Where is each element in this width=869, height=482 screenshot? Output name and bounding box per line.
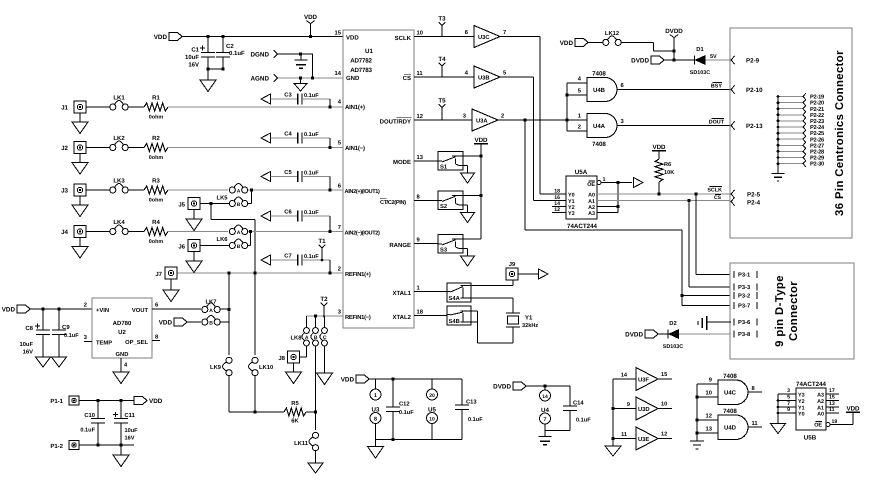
ground (S1) [461,173,475,183]
svg-text:T4: T4 [438,56,446,63]
svg-text:R1: R1 [152,95,160,102]
svg-text:P2-27: P2-27 [810,143,824,149]
svg-text:J6: J6 [178,244,185,251]
svg-text:T5: T5 [438,98,446,105]
power tag VDD (U2 input) [2,305,92,314]
pin P2-22 [777,112,824,119]
svg-text:B: B [237,244,241,250]
svg-text:GND: GND [116,351,129,358]
capacitor C3 0.1uF [271,92,331,108]
connector J9 [506,261,538,280]
svg-text:A: A [237,188,241,194]
svg-text:6K: 6K [291,418,299,425]
svg-text:A3: A3 [588,211,595,217]
resistor R1 0ohm [144,95,168,121]
wire LK7 join [220,308,231,322]
pin P2-23 [777,118,824,125]
wire CS pin 11 [414,76,474,78]
svg-text:9 pin D-Type: 9 pin D-Type [774,275,786,347]
svg-text:C4: C4 [284,131,292,138]
svg-text:10: 10 [429,416,435,422]
wire REFIN1(+) row [178,271,344,274]
wire U3C output to U5A Y0 [500,37,566,195]
resistor R2 0ohm [144,135,168,161]
ground (C8) [36,357,51,367]
svg-text:7408: 7408 [592,71,606,78]
wire MODE pin 13 [414,160,438,162]
wire LK9 to R5 [228,376,230,413]
jumper LK5 A [217,184,248,202]
svg-text:P2-10: P2-10 [746,87,763,94]
svg-text:U4C: U4C [724,390,737,397]
svg-text:Connector: Connector [788,281,800,341]
jumper LK8 (A/B/C) [291,316,328,346]
wire XTAL1 pin 1 [414,291,447,293]
svg-text:J9: J9 [509,261,516,268]
wire XTAL2 pin 18 [414,315,447,317]
capacitor C1 10uF 16V [185,37,215,70]
jumper LK7 B [202,316,221,327]
svg-text:7: 7 [503,30,506,36]
svg-text:P3-6: P3-6 [738,319,751,326]
pin P3-2 [734,292,757,300]
wire REFIN1(-) row [307,314,344,317]
svg-text:VDD: VDD [149,398,163,405]
svg-text:+VIN: +VIN [96,308,109,314]
svg-text:R3: R3 [152,178,160,185]
svg-text:16V: 16V [23,349,33,356]
power flag DVDD [665,28,683,62]
svg-text:16V: 16V [188,62,199,69]
test point T1 [318,238,326,261]
test point T2 [320,296,328,317]
ground (C1/C2) [200,80,216,92]
power tag VDD (LK12) [560,39,603,48]
node DGND [250,50,313,59]
svg-text:B: B [314,335,318,341]
svg-text:32kHz: 32kHz [522,322,538,329]
supply pin U4 pin7 [540,413,551,431]
wire [168,189,228,191]
connector J6 [178,240,230,262]
wire DOUT to P3-7 [682,305,731,307]
wire CS to P3-3 [689,201,731,288]
wire DOUT to P3-2 [682,295,731,297]
connector J5 [178,198,230,220]
wire [168,105,343,108]
earth ground (DGND) [295,54,308,68]
svg-text:BSY: BSY [711,84,722,90]
svg-text:P3-7: P3-7 [738,303,750,310]
ground (U3 bus) [605,446,621,456]
svg-text:S4B: S4B [449,318,460,325]
crystal Y1 32kHz [506,313,538,329]
svg-text:7408: 7408 [592,141,606,148]
svg-text:C12: C12 [399,401,410,408]
svg-text:VOUT: VOUT [132,307,149,314]
svg-text:U4D: U4D [724,425,737,432]
svg-text:VDD: VDD [304,14,318,21]
power flag VDD (R6) [652,144,666,159]
ground (J4) [72,247,88,259]
svg-text:DOUT/RDY: DOUT/RDY [380,119,411,126]
svg-text:10uF: 10uF [185,54,199,61]
input arrow (C5) [261,172,271,182]
svg-text:C2: C2 [226,43,234,50]
wire CT/C2C pin 8 [414,200,438,202]
svg-text:A: A [209,308,213,314]
svg-text:P1-2: P1-2 [50,443,63,450]
ground (J6) [186,261,202,273]
capacitor C14 0.1uF [563,386,591,431]
pin P2-25 [777,130,824,137]
switch S4A [447,283,471,302]
svg-text:0.1uF: 0.1uF [64,333,79,339]
svg-text:P2-4: P2-4 [747,200,761,207]
wire C12 group bottom [376,438,463,447]
power tag VDD (C1/C2 rail) [154,33,182,42]
svg-text:C11: C11 [125,412,136,419]
svg-text:AIN1(+): AIN1(+) [345,104,365,111]
pin P3-7 [734,302,757,310]
input arrow (C3) [261,94,271,104]
wire SCLK pin 10 [414,36,474,38]
svg-text:LK9: LK9 [210,364,222,371]
svg-text:LK6: LK6 [217,236,229,243]
jumper LK7 A [202,300,221,314]
capacitor C6 0.1uF [271,209,331,232]
svg-text:GND: GND [346,75,360,82]
svg-text:DOUT: DOUT [709,120,725,126]
wire U3F/D/E input bus [611,379,614,446]
svg-text:P2-21: P2-21 [810,107,824,113]
ground (J1) [72,122,88,134]
svg-text:2: 2 [84,302,87,309]
IC U5B 74ACT244 [777,381,839,442]
svg-text:11: 11 [417,71,424,77]
svg-text:11: 11 [829,407,835,413]
svg-text:U3E: U3E [638,436,649,443]
ground (LK8-C) [317,373,333,385]
svg-text:VDD: VDD [154,34,168,41]
svg-text:VDD: VDD [846,406,860,413]
svg-text:P2-20: P2-20 [810,101,824,107]
wire S4A to Y1 [471,298,513,313]
ground (P1-2) [113,455,129,467]
svg-text:18: 18 [417,309,424,316]
svg-text:REFIN1(+): REFIN1(+) [345,271,371,278]
power tag VDD (C12 group) [341,375,462,384]
svg-text:P2-24: P2-24 [810,125,825,131]
svg-text:10: 10 [706,390,712,397]
pin P2-19 [777,93,824,100]
svg-text:11: 11 [752,421,759,427]
svg-text:CS: CS [714,195,722,201]
svg-text:13: 13 [706,426,713,433]
svg-text:RANGE: RANGE [389,242,411,249]
diode D2 SD103C [663,320,683,350]
svg-text:1: 1 [374,393,377,399]
input arrow (C6) [261,211,271,221]
svg-text:5V: 5V [710,54,717,60]
wire DOUT net routing to P3 [525,120,684,306]
connector J7 [155,267,177,290]
svg-text:AIN2(+)(IOUT1): AIN2(+)(IOUT1) [345,188,381,195]
svg-text:P2-28: P2-28 [810,150,824,156]
svg-text:VDD: VDD [341,377,355,384]
wire DOUT/RDY pin 12 [414,119,472,121]
svg-text:A3: A3 [817,393,824,399]
pin P2-4 [731,198,761,207]
svg-text:5: 5 [787,395,790,401]
svg-text:10: 10 [661,402,667,408]
svg-text:P2-5: P2-5 [747,192,761,199]
capacitor C13 0.1uF [455,379,483,440]
wire SCLK to P3-1 [696,194,731,275]
svg-text:OE: OE [814,423,822,429]
svg-text:36 Pin Centronics Connector: 36 Pin Centronics Connector [834,50,846,216]
svg-text:0.1uF: 0.1uF [304,254,319,260]
wire U3B output to U5A Y1 [500,77,566,201]
buffer U3B [465,66,507,88]
svg-text:0.1uF: 0.1uF [80,428,95,434]
power flag VDD (U5B OE) [830,406,860,425]
connector P3 (9 pin D-Type) [730,263,854,359]
pin P3-3 [734,284,757,292]
supply pin U4 pin14 [540,386,551,401]
svg-text:VDD: VDD [346,35,359,42]
svg-text:CS: CS [403,75,411,82]
input arrow (C7) [261,255,271,265]
svg-text:C: C [323,335,327,341]
svg-text:C7: C7 [284,253,291,260]
svg-text:U3C: U3C [478,34,490,41]
svg-text:0ohm: 0ohm [149,198,164,204]
switch S2 [438,191,463,210]
IC U2 AD780 [84,298,160,372]
resistor R6 10K [655,159,674,194]
pin P2-13 [731,122,763,131]
svg-text:VDD: VDD [474,137,488,144]
svg-text:J4: J4 [61,229,68,236]
ground (J8) [286,372,302,384]
svg-text:0.1uF: 0.1uF [229,50,245,57]
power tag VDD (LK7-B) [159,318,201,327]
svg-text:P2-22: P2-22 [810,113,824,119]
connector P2 (36 Pin Centronics) [730,28,852,238]
AND gate U4C (7408) [718,373,762,405]
test point T3 [438,16,446,37]
svg-text:R2: R2 [152,135,160,142]
svg-text:C14: C14 [573,400,584,407]
svg-text:VDD: VDD [159,320,173,327]
svg-text:16V: 16V [125,436,135,442]
svg-text:AD7782: AD7782 [350,58,372,65]
svg-text:P2-13: P2-13 [746,123,763,130]
earth ground (P2 bus) [772,164,785,181]
wire LK12 to DVDD node [621,42,676,52]
wire D2 to P3-8 [679,333,731,335]
buffer U3D [613,397,672,420]
svg-text:SCLK: SCLK [395,35,412,42]
power flag VDD (switches) [474,137,488,156]
buffer U3E [613,427,672,450]
svg-text:XTAL2: XTAL2 [392,314,411,321]
switch S4B [447,306,471,325]
svg-text:J5: J5 [178,202,185,209]
jumper LK2 [110,135,144,151]
wire U4 input bus [565,77,587,132]
ground (LK11) [308,463,323,473]
svg-text:U1: U1 [365,48,373,55]
ground (J5) [186,219,202,231]
svg-text:10K: 10K [664,170,674,176]
svg-text:C3: C3 [284,92,292,99]
svg-text:R4: R4 [152,219,160,226]
power tag VDD (P1) [134,397,163,406]
jumper LK6 A [217,225,248,243]
svg-text:7: 7 [338,225,341,231]
jumper LK12 [603,30,622,45]
switch S3 [438,235,463,254]
ground (J7) [163,290,179,302]
svg-text:C10: C10 [84,412,95,419]
wire DGND to AGND [312,54,314,78]
svg-text:A2: A2 [817,399,824,405]
svg-text:17: 17 [829,388,835,394]
svg-text:DVDD: DVDD [625,332,643,339]
svg-text:2: 2 [501,113,504,120]
wire C1/C2 bottom link [206,67,224,80]
pin P2-10 [731,86,763,95]
connector J1 [61,101,110,122]
svg-text:LK7: LK7 [206,300,217,306]
svg-text:20: 20 [429,393,435,399]
connector J2 [61,142,110,163]
resistor R4 0ohm [144,219,168,245]
svg-text:B: B [209,320,213,326]
jumper LK10 [249,273,274,414]
svg-text:U5A: U5A [575,169,588,176]
wire CS row to P2-4 [597,194,731,202]
pin P3-8 [734,331,757,339]
svg-text:S2: S2 [440,203,447,210]
svg-text:7408: 7408 [723,408,737,415]
svg-text:0.1uF: 0.1uF [399,410,414,416]
svg-text:9: 9 [627,402,630,408]
node AGND [250,74,343,83]
svg-text:DVDD: DVDD [493,384,511,391]
AND gate U4B (7408) [587,71,625,102]
wire [168,231,228,233]
svg-text:9: 9 [787,407,790,413]
svg-text:0.1uF: 0.1uF [304,93,319,99]
svg-text:D2: D2 [669,320,676,327]
svg-text:U3A: U3A [476,118,488,125]
wire switch common rail [463,154,483,239]
svg-text:3: 3 [787,388,790,394]
jumper LK4 [110,219,144,235]
svg-text:P3-1: P3-1 [738,272,751,279]
wire P2-19..30 ground bus [777,97,779,164]
svg-text:7408: 7408 [723,373,737,380]
svg-text:0.1uF: 0.1uF [304,132,319,138]
wire REFIN1(+) down through LK9 [228,273,230,355]
svg-text:OE: OE [587,182,595,188]
svg-text:U4B: U4B [593,87,606,94]
capacitor C8 10uF 16V [19,309,50,357]
wire U4C/D input bus [695,377,718,435]
svg-text:C6: C6 [284,209,292,216]
wire U4A output to P2-13 [617,118,731,125]
wire (LK5 join to pin 6) [248,188,343,203]
jumper LK5 B [229,197,248,208]
jumper LK3 [110,178,144,194]
svg-text:0.1uF: 0.1uF [576,418,591,424]
arrow (J9) [539,269,549,279]
svg-text:14: 14 [542,394,548,400]
capacitor C10 0.1uF [80,401,105,446]
svg-text:U4A: U4A [593,123,606,130]
svg-text:10uF: 10uF [125,428,139,434]
supply pin U5 pin10 [427,413,438,440]
wire S1 ground [463,166,468,174]
wire D1 to P2-9 [706,59,732,61]
wire SCLK row to P2-5 [597,186,731,195]
svg-text:AIN1(−): AIN1(−) [345,145,365,152]
capacitor C4 0.1uF [271,131,331,148]
svg-text:T1: T1 [318,238,326,245]
wire LK8-B down to R5 [314,346,317,414]
svg-text:DGND: DGND [250,52,269,59]
AND gate U4A (7408) [587,114,625,149]
switch S1 [438,152,463,171]
svg-text:2: 2 [578,124,581,131]
svg-text:LK11: LK11 [294,441,309,447]
connector J4 [61,226,110,247]
svg-text:U5B: U5B [804,435,817,442]
IC U5A 74ACT244 [552,169,632,230]
svg-text:P2-19: P2-19 [810,95,824,101]
capacitor C9 0.1uF [52,309,79,357]
wire (LK6 join to pin 7) [248,230,343,246]
svg-text:0ohm: 0ohm [149,155,164,161]
power flag VDD (top) [304,14,318,37]
svg-text:14: 14 [621,373,628,379]
pin P2-20 [777,99,824,106]
svg-text:B: B [237,202,241,208]
svg-text:A: A [237,230,241,236]
IC U3 supply label [372,407,380,414]
connector P1-1 [50,396,134,405]
ground (U2 GND) [113,372,129,384]
svg-text:U3B: U3B [478,75,490,82]
test point T5 [438,98,446,121]
svg-text:AD780: AD780 [113,320,132,327]
svg-text:Y0: Y0 [568,193,575,199]
svg-text:0.1uF: 0.1uF [468,417,483,423]
svg-text:74ACT244: 74ACT244 [567,223,597,230]
wire S4A to J9 [471,280,513,286]
capacitor C2 0.1uF [216,37,245,70]
wire S4B / Y1 bottom loop [471,311,513,343]
pin P2-5 [731,190,761,199]
capacitor C5 0.1uF [271,169,331,190]
capacitor C7 0.1uF [271,253,331,274]
resistor R5 6K [229,401,316,425]
svg-text:P1-1: P1-1 [50,398,63,405]
connector J3 [61,184,110,205]
